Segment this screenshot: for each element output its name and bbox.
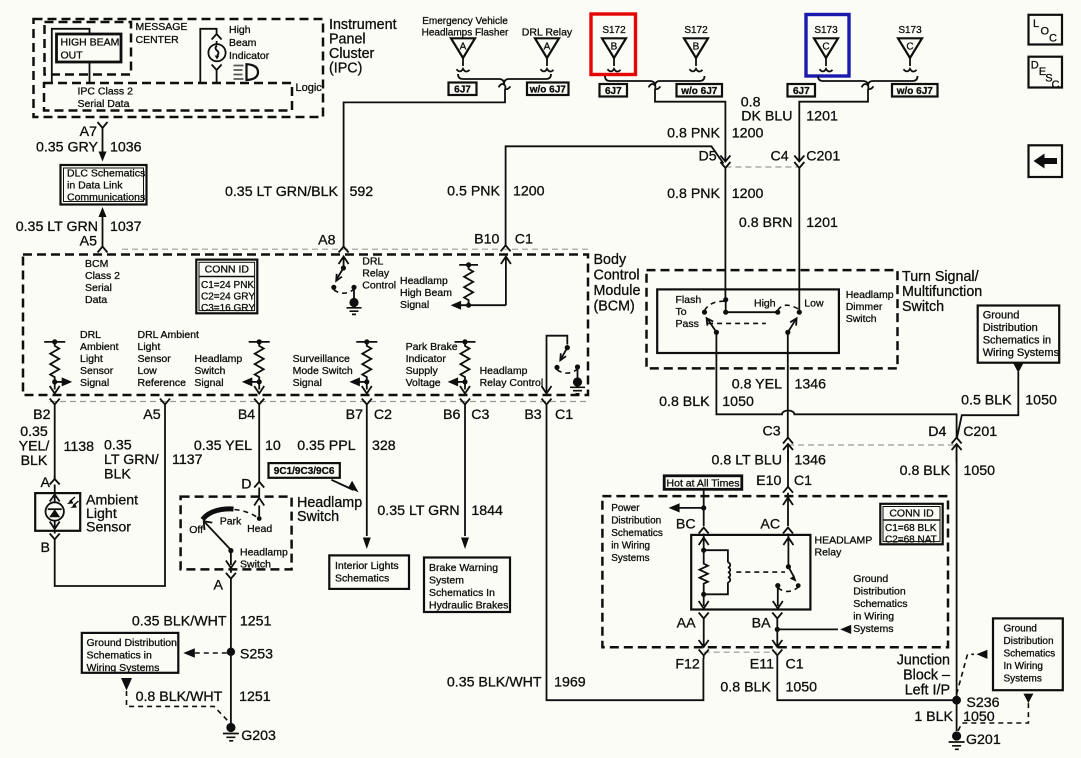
svg-text:Headlamp: Headlamp <box>400 275 448 287</box>
svg-text:(BCM): (BCM) <box>594 299 635 315</box>
ground G201 <box>949 731 1001 749</box>
wire 0.8 PNK 1200 from S172 to D5 <box>655 89 725 160</box>
svg-text:9C1/9C3/9C6: 9C1/9C3/9C6 <box>274 466 335 477</box>
wire from group1 to A8 <box>344 89 505 247</box>
svg-text:1050: 1050 <box>1025 393 1057 409</box>
splice S253 <box>227 648 235 656</box>
svg-text:C3: C3 <box>762 424 780 440</box>
svg-text:Pass: Pass <box>676 318 699 330</box>
svg-text:BCM: BCM <box>85 258 108 270</box>
wire 0.35 BLK/WHT 1969 (B3 to F12) <box>547 408 704 700</box>
wire 0.35 LT GRN 1844 (B6 down) <box>464 408 466 536</box>
brace group 1 <box>458 74 551 84</box>
svg-text:B: B <box>41 540 50 556</box>
svg-text:Sensor: Sensor <box>138 353 172 365</box>
MESSAGE CENTER dashed box <box>45 22 132 75</box>
svg-text:CONN ID: CONN ID <box>205 264 250 276</box>
svg-text:1 BLK: 1 BLK <box>914 709 953 725</box>
svg-text:IPC Class 2: IPC Class 2 <box>78 86 134 98</box>
svg-text:0.8 BLK/WHT: 0.8 BLK/WHT <box>136 689 223 705</box>
pin A5 into BCM <box>98 247 108 253</box>
svg-text:Interior Lights: Interior Lights <box>335 560 399 572</box>
connector pin D4 C201 (double chevron up) <box>952 438 962 463</box>
svg-text:C: C <box>906 42 913 53</box>
wire 0.8 BLK 1050 (D4 to S236) <box>956 450 958 700</box>
headlamp switch rotary contacts <box>189 498 272 568</box>
svg-text:E10: E10 <box>756 473 781 489</box>
connector pin D5 (double chevron down) <box>720 156 730 169</box>
svg-text:S172: S172 <box>684 25 708 36</box>
resistor park brake indicator supply voltage (B6) <box>448 339 476 393</box>
svg-text:In Wiring: In Wiring <box>1004 661 1043 672</box>
pin A7 <box>98 122 108 128</box>
svg-text:Switch: Switch <box>902 299 944 315</box>
pin A8 into BCM <box>339 247 349 253</box>
svg-text:F12: F12 <box>675 657 700 673</box>
svg-text:Relay: Relay <box>362 268 390 280</box>
svg-text:Wiring Systems: Wiring Systems <box>87 662 160 674</box>
svg-text:Sensor: Sensor <box>80 365 114 377</box>
interior lights schematics box <box>329 555 409 589</box>
svg-text:Switch: Switch <box>240 559 271 571</box>
headlamp relay K1 box <box>691 535 810 610</box>
IPC outer dashed box <box>34 19 324 117</box>
svg-text:0.8 PNK: 0.8 PNK <box>667 126 720 142</box>
dashed link S236 to ground dist box (bottom right) <box>957 654 974 694</box>
connector triangle A (Emergency Vehicle Headlamps Flasher) <box>451 38 475 71</box>
wire 0.8 DK BLU 1201 from S173 to C4 <box>799 89 868 160</box>
svg-text:0.8 YEL: 0.8 YEL <box>732 377 782 393</box>
svg-text:Serial Data: Serial Data <box>78 98 130 110</box>
connector pin C4 (double chevron down) <box>794 156 804 169</box>
svg-text:DLC Schematics: DLC Schematics <box>67 168 145 180</box>
svg-text:0.8 BRN: 0.8 BRN <box>739 215 793 231</box>
svg-text:Supply: Supply <box>406 365 439 377</box>
pin B4 <box>254 399 264 408</box>
svg-text:B3: B3 <box>524 407 541 423</box>
high beam indicator lamp <box>200 29 225 83</box>
svg-text:1050: 1050 <box>786 680 818 696</box>
svg-text:B4: B4 <box>238 407 255 423</box>
svg-text:C: C <box>1052 79 1060 91</box>
pin E11 C1 <box>772 650 782 659</box>
svg-text:1137: 1137 <box>172 452 203 468</box>
svg-text:C1=68 BLK: C1=68 BLK <box>885 523 937 534</box>
svg-text:10: 10 <box>265 438 281 454</box>
svg-text:Surveillance: Surveillance <box>293 353 350 365</box>
svg-text:Switch: Switch <box>846 313 877 325</box>
connector C201 top: gray dashed line <box>725 166 799 168</box>
svg-text:DRL: DRL <box>80 329 101 341</box>
svg-text:System: System <box>429 575 464 587</box>
svg-text:C1: C1 <box>794 473 812 489</box>
connector triangle A (DRL Relay) <box>535 38 559 71</box>
svg-text:G203: G203 <box>241 728 276 744</box>
svg-text:Low: Low <box>804 298 824 310</box>
splice symbol S172 (w/o 6J7) <box>684 38 708 71</box>
svg-text:Headlamp: Headlamp <box>846 289 894 301</box>
svg-text:Systems: Systems <box>1004 674 1042 685</box>
svg-text:S253: S253 <box>240 647 273 663</box>
svg-text:Indicator: Indicator <box>406 353 447 365</box>
svg-text:D4: D4 <box>928 424 946 440</box>
resistor headlamp high beam signal <box>459 262 478 308</box>
CONN ID box (BCM) <box>196 260 257 314</box>
svg-text:Schematics: Schematics <box>611 528 663 539</box>
svg-text:0.5 PNK: 0.5 PNK <box>447 184 500 200</box>
svg-text:1138: 1138 <box>64 439 95 455</box>
svg-text:1200: 1200 <box>732 186 764 202</box>
junction block dashed box <box>602 496 948 647</box>
svg-text:AA: AA <box>677 616 696 632</box>
svg-text:HIGH BEAM: HIGH BEAM <box>61 37 120 49</box>
svg-text:Head: Head <box>247 523 272 535</box>
svg-text:C2=24 GRY: C2=24 GRY <box>201 292 255 303</box>
svg-text:Park: Park <box>220 516 242 528</box>
wire 0.35 BLK/WHT 1251 (A to S253) <box>230 579 232 652</box>
logic dashed box (IPC Class 2 Serial Data) <box>44 83 292 111</box>
splice symbol S173 (6J7) <box>814 38 838 71</box>
pin B6 C3 <box>460 399 470 408</box>
svg-text:328: 328 <box>372 438 396 454</box>
svg-text:Signal: Signal <box>400 299 429 311</box>
svg-text:Hydraulic Brakes: Hydraulic Brakes <box>429 600 508 612</box>
9C1/9C3/9C6 box <box>269 463 359 492</box>
svg-text:Voltage: Voltage <box>406 377 441 389</box>
svg-text:L: L <box>1033 18 1039 30</box>
svg-text:Body: Body <box>594 252 627 268</box>
svg-text:Ground Distribution: Ground Distribution <box>87 637 178 649</box>
svg-text:Schematics In: Schematics In <box>429 587 495 599</box>
svg-text:Schematics: Schematics <box>853 598 907 610</box>
svg-text:Distribution: Distribution <box>853 586 906 598</box>
svg-text:A5: A5 <box>80 234 97 250</box>
svg-text:Hot at All Times: Hot at All Times <box>667 477 740 489</box>
BA ground link arrow <box>775 627 780 632</box>
svg-text:C1=24 PNK: C1=24 PNK <box>201 280 254 291</box>
svg-text:w/o 6J7: w/o 6J7 <box>896 86 934 97</box>
svg-text:BLK: BLK <box>21 453 48 469</box>
svg-text:C: C <box>822 42 829 53</box>
wire BC from top edge <box>703 490 705 527</box>
svg-text:C: C <box>1049 33 1057 45</box>
svg-text:1050: 1050 <box>722 394 754 410</box>
svg-text:High Beam: High Beam <box>400 287 452 299</box>
svg-text:Signal: Signal <box>293 377 322 389</box>
svg-text:1036: 1036 <box>110 140 142 156</box>
wire 0.8 BLK/WHT 1251 (S253 to G203) <box>230 652 232 724</box>
relay switch branch <box>736 536 800 609</box>
option squiggle group1 <box>499 84 511 89</box>
svg-text:Signal: Signal <box>194 377 223 389</box>
svg-text:0.35 BLK/WHT: 0.35 BLK/WHT <box>447 675 542 691</box>
svg-text:Brake Warning: Brake Warning <box>429 562 498 574</box>
wire from HIGH BEAM OUT bottom to logic box <box>89 62 91 83</box>
svg-text:Ground: Ground <box>983 310 1020 322</box>
svg-text:G201: G201 <box>966 732 1001 748</box>
dashed link to S253 <box>183 648 195 657</box>
svg-text:1346: 1346 <box>795 377 827 393</box>
svg-text:Ambient: Ambient <box>80 341 119 353</box>
wire 0.5 PNK 1200 from B10 up to D5 <box>506 146 724 247</box>
pin B10 C1 into BCM <box>501 245 511 251</box>
resistor DRL ambient light sensor signal (B2) <box>44 339 72 393</box>
brace group 2 <box>605 76 705 86</box>
svg-text:Mode Switch: Mode Switch <box>293 365 353 377</box>
svg-text:Relay: Relay <box>815 547 843 559</box>
svg-text:Systems: Systems <box>611 553 649 564</box>
w/o 6J7 box group1 <box>527 83 569 96</box>
svg-text:Schematics: Schematics <box>335 573 389 585</box>
HIGH BEAM OUT box <box>57 34 122 62</box>
svg-text:0.5 BLK: 0.5 BLK <box>961 393 1012 409</box>
svg-text:Switch: Switch <box>297 509 339 525</box>
svg-text:A: A <box>41 475 51 491</box>
svg-text:Light: Light <box>138 341 161 353</box>
svg-text:C2: C2 <box>374 407 392 423</box>
svg-text:Control: Control <box>594 268 640 284</box>
svg-text:1969: 1969 <box>554 675 586 691</box>
svg-text:A8: A8 <box>318 233 335 249</box>
svg-text:1200: 1200 <box>513 184 545 200</box>
wire E10 to AC <box>783 493 793 526</box>
DRL relay control switch (BCM internal) <box>331 257 361 315</box>
svg-text:C3: C3 <box>471 407 489 423</box>
svg-text:Headlamp: Headlamp <box>480 365 528 377</box>
svg-text:OUT: OUT <box>61 50 84 62</box>
svg-text:1037: 1037 <box>110 219 142 235</box>
w/o 6J7 box group2 <box>677 84 723 97</box>
svg-text:Block –: Block – <box>903 668 950 684</box>
pin B7 C2 <box>362 399 372 408</box>
gray connector line F12/E11 <box>704 651 778 653</box>
back arrow box <box>1029 145 1063 177</box>
svg-text:Class 2: Class 2 <box>85 270 120 282</box>
svg-text:Indicator: Indicator <box>229 50 270 62</box>
svg-text:D5: D5 <box>698 149 716 165</box>
wire AA to F12 <box>699 640 709 647</box>
svg-text:Beam: Beam <box>229 37 257 49</box>
svg-text:D: D <box>241 477 251 493</box>
svg-text:Distribution: Distribution <box>611 516 661 527</box>
headlamp dimmer switch box <box>657 289 839 353</box>
svg-text:592: 592 <box>350 184 374 200</box>
svg-text:DK BLU: DK BLU <box>741 109 792 125</box>
svg-text:BC: BC <box>676 517 696 533</box>
wire 0.8 BLK 1050 (flash-to-pass to D4) with hop over C3 wire <box>716 332 956 437</box>
svg-text:B2: B2 <box>33 407 50 423</box>
LOC box <box>1029 15 1063 45</box>
svg-text:High: High <box>754 298 776 310</box>
ground distribution box (top right) <box>978 306 1060 363</box>
svg-text:Light: Light <box>80 353 103 365</box>
svg-text:Distribution: Distribution <box>1004 636 1054 647</box>
svg-text:Ground: Ground <box>1004 624 1037 635</box>
svg-text:C1: C1 <box>515 232 533 248</box>
splice S236 <box>952 696 961 705</box>
wire 0.35 GRY 1036 <box>102 128 104 152</box>
resistor headlamp switch signal (B4) <box>242 339 270 393</box>
svg-text:Control: Control <box>362 280 396 292</box>
svg-text:Ground: Ground <box>853 573 888 585</box>
wire 0.8 BRN 1201 below C4 <box>798 168 800 312</box>
ground G203 <box>223 723 276 744</box>
svg-text:D: D <box>1031 60 1039 72</box>
svg-text:0.8 PNK: 0.8 PNK <box>667 186 720 202</box>
Hot at All Times box <box>664 476 742 490</box>
relay coil branch <box>699 536 731 609</box>
svg-text:Left I/P: Left I/P <box>905 683 950 699</box>
svg-text:C4: C4 <box>771 149 789 165</box>
headlamp relay control switch (BCM internal) <box>542 336 586 394</box>
svg-text:6J7: 6J7 <box>793 86 810 97</box>
svg-text:B: B <box>693 42 700 53</box>
svg-text:B6: B6 <box>443 407 460 423</box>
svg-text:DRL: DRL <box>362 256 383 268</box>
6J7 box group1 <box>449 83 477 96</box>
wire 0.8 LT BLU 1346 (C3 to E10) <box>787 450 789 487</box>
svg-text:in Wiring: in Wiring <box>611 541 650 552</box>
svg-text:1346: 1346 <box>794 453 826 469</box>
turn signal dashed box <box>647 270 898 368</box>
svg-text:B: B <box>611 42 618 53</box>
svg-text:Switch: Switch <box>194 365 225 377</box>
DLC Schematics box <box>61 165 147 205</box>
svg-text:B10: B10 <box>474 232 499 248</box>
svg-text:Junction: Junction <box>897 653 950 669</box>
svg-text:CONN ID: CONN ID <box>889 508 934 520</box>
gray connector line at BCM bottom <box>50 401 590 403</box>
svg-text:0.35 LT GRN/BLK: 0.35 LT GRN/BLK <box>225 184 339 200</box>
svg-text:Relay Control: Relay Control <box>480 377 544 389</box>
svg-text:1251: 1251 <box>240 614 272 630</box>
svg-text:0.8 LT BLU: 0.8 LT BLU <box>712 453 782 469</box>
svg-text:AC: AC <box>760 517 780 533</box>
brace group 3 <box>818 76 918 86</box>
wire BA to E11 <box>772 640 782 647</box>
svg-text:BLK: BLK <box>104 467 131 483</box>
ambient light sensor U1 <box>35 493 80 531</box>
svg-text:A: A <box>460 42 467 53</box>
svg-text:Systems: Systems <box>853 623 893 635</box>
headlamp switch S1 dashed box <box>181 497 292 570</box>
wire 1 BLK 1050 (S236 to G201) <box>956 700 958 731</box>
dimmer switch contacts <box>702 297 802 335</box>
dashed link ground dist box to G201 <box>1023 694 1033 704</box>
svg-text:A: A <box>544 42 551 53</box>
ground distribution box (bottom right) <box>993 618 1063 690</box>
svg-text:S172: S172 <box>602 25 626 36</box>
svg-text:0.35 LT GRN: 0.35 LT GRN <box>377 503 459 519</box>
pin A5 (BCM bottom) <box>160 399 170 408</box>
svg-text:To: To <box>676 306 687 318</box>
wire 0.35 YEL 10 (B4 to headlamp switch D) <box>258 408 260 482</box>
svg-text:A: A <box>214 578 224 594</box>
resistor surveillance mode switch signal (B7) <box>349 339 377 393</box>
svg-text:Power: Power <box>611 503 640 514</box>
svg-text:Multifunction: Multifunction <box>902 284 982 300</box>
svg-text:0.35 PPL: 0.35 PPL <box>297 438 355 454</box>
svg-text:1201: 1201 <box>806 109 838 125</box>
svg-text:HEADLAMP: HEADLAMP <box>815 535 873 547</box>
svg-text:Serial: Serial <box>85 282 112 294</box>
option squiggle group3 <box>862 84 874 89</box>
svg-text:Headlamp: Headlamp <box>194 353 242 365</box>
svg-text:Flash: Flash <box>676 294 702 306</box>
svg-text:0.35 BLK/WHT: 0.35 BLK/WHT <box>132 614 227 630</box>
svg-text:B7: B7 <box>346 407 363 423</box>
svg-text:1200: 1200 <box>732 126 764 142</box>
svg-text:0.35 YEL: 0.35 YEL <box>194 438 252 454</box>
svg-text:CENTER: CENTER <box>136 34 180 46</box>
svg-text:BA: BA <box>752 616 771 632</box>
svg-text:in Wiring: in Wiring <box>853 611 894 623</box>
headlamp high beam signal wire (BCM internal) <box>451 257 511 310</box>
svg-text:Data: Data <box>85 294 107 306</box>
splice symbol S173 (w/o 6J7) <box>898 38 922 71</box>
pin B3 C1 <box>542 399 552 408</box>
svg-text:C201: C201 <box>963 424 997 440</box>
CONN ID box (junction block) <box>880 504 942 546</box>
blue highlight box around S173 <box>806 15 849 77</box>
svg-text:Park Brake: Park Brake <box>406 341 458 353</box>
wire 0.35 LT GRN 1037 <box>99 207 107 217</box>
svg-text:w/o 6J7: w/o 6J7 <box>680 86 718 97</box>
svg-text:Headlamps Flasher: Headlamps Flasher <box>422 28 509 39</box>
svg-text:1251: 1251 <box>239 689 271 705</box>
brake warning system box <box>424 558 510 613</box>
option squiggle group2 <box>649 84 661 89</box>
DESC box <box>1029 57 1063 91</box>
svg-text:0.35 GRY: 0.35 GRY <box>36 140 99 156</box>
wire 0.8 YEL 1346 (low to C3) <box>787 332 789 437</box>
svg-text:Emergency Vehicle: Emergency Vehicle <box>422 16 508 27</box>
svg-text:0.8 BLK: 0.8 BLK <box>900 463 951 479</box>
pin B2 <box>50 399 60 408</box>
headlamp beam icon <box>234 64 259 80</box>
svg-text:Sensor: Sensor <box>86 520 131 536</box>
svg-text:Wiring Systems: Wiring Systems <box>983 347 1060 359</box>
svg-text:C2=68 NAT: C2=68 NAT <box>885 535 937 546</box>
dashed ground link (left box to G203 wire) <box>121 678 132 691</box>
svg-text:Module: Module <box>594 283 641 299</box>
svg-text:(IPC): (IPC) <box>329 61 362 77</box>
6J7 box group3 <box>788 84 816 97</box>
wire 0.5 BLK 1050 (ground dist box to D4) <box>1013 363 1023 373</box>
wire from HIGH BEAM OUT top to logic box <box>52 29 90 83</box>
BCM dashed outline <box>23 255 588 396</box>
svg-text:Signal: Signal <box>80 377 109 389</box>
svg-text:S173: S173 <box>898 25 922 36</box>
svg-text:Communications: Communications <box>67 192 145 204</box>
svg-text:E11: E11 <box>750 657 774 673</box>
svg-text:Turn Signal/: Turn Signal/ <box>902 269 979 285</box>
red highlight box around S172 <box>591 14 636 75</box>
wire 0.8 BLK 1050 (E11 to S236) <box>777 659 956 701</box>
svg-text:Off: Off <box>189 524 203 536</box>
svg-text:in Data Link: in Data Link <box>67 180 123 192</box>
svg-text:1844: 1844 <box>471 503 503 519</box>
svg-text:Distribution: Distribution <box>983 322 1038 334</box>
splice symbol S172 (6J7) <box>602 38 626 71</box>
svg-text:MESSAGE: MESSAGE <box>136 21 188 33</box>
wire 0.35 LT GRN/BLK 1137 (sensor B to A5) <box>55 408 165 586</box>
svg-text:C201: C201 <box>806 149 840 165</box>
svg-text:1050: 1050 <box>964 463 996 479</box>
6J7 box group2 <box>600 84 628 97</box>
svg-text:C3=16 GRY: C3=16 GRY <box>201 303 255 314</box>
svg-text:DRL Relay: DRL Relay <box>522 27 573 39</box>
